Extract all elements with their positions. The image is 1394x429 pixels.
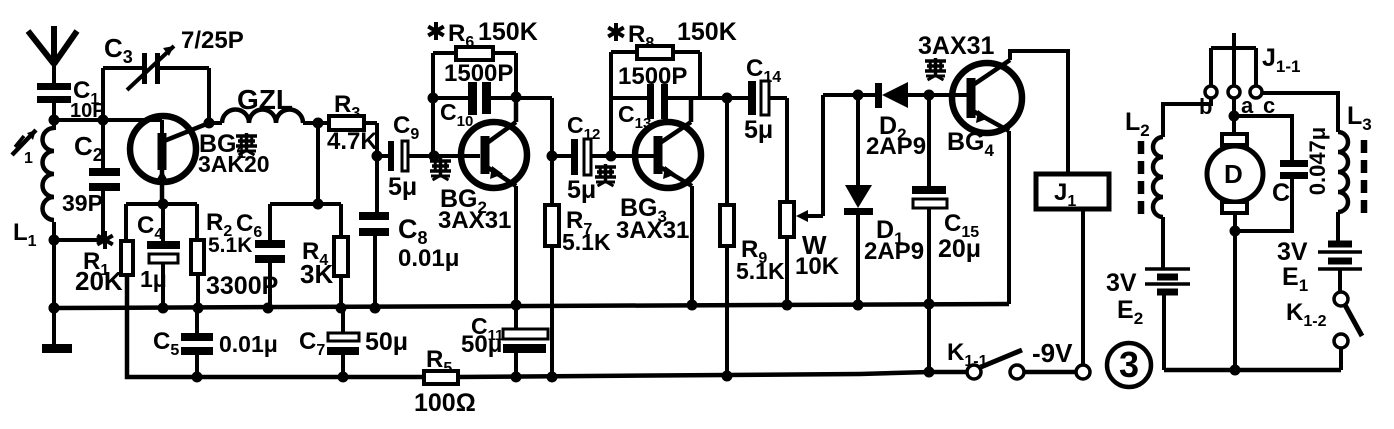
svg-text:3300P: 3300P [206,272,278,300]
svg-text:1500P: 1500P [618,63,687,90]
svg-text:5.1K: 5.1K [736,258,785,284]
svg-text:3AX31: 3AX31 [438,207,511,234]
svg-text:150K: 150K [677,18,737,46]
svg-text:3AK20: 3AK20 [198,151,270,177]
svg-text:3V: 3V [1106,269,1137,297]
svg-text:0.01μ: 0.01μ [219,331,278,357]
svg-text:150K: 150K [478,18,538,46]
svg-text:GZL: GZL [237,84,293,115]
svg-text:D: D [1224,159,1243,189]
svg-text:100Ω: 100Ω [414,389,476,417]
svg-text:5μ: 5μ [744,116,773,144]
svg-text:3: 3 [1119,344,1139,385]
svg-text:10P: 10P [70,100,106,122]
svg-text:39P: 39P [62,190,103,216]
svg-text:20μ: 20μ [938,235,981,263]
svg-text:1μ: 1μ [140,266,167,292]
svg-text:10K: 10K [795,253,840,280]
svg-text:2AP9: 2AP9 [864,238,924,265]
svg-text:1500P: 1500P [444,60,513,87]
svg-text:5μ: 5μ [388,173,417,201]
svg-text:3V: 3V [1277,238,1308,266]
svg-text:c: c [1263,93,1275,118]
svg-text:C: C [1272,179,1290,207]
svg-text:5μ: 5μ [567,176,596,204]
svg-text:3K: 3K [300,259,333,289]
svg-text:20K: 20K [75,266,123,296]
svg-text:3AX31: 3AX31 [616,217,689,244]
svg-text:3AX31: 3AX31 [918,32,995,60]
svg-text:a: a [1241,93,1254,118]
svg-text:-9V: -9V [1032,338,1073,368]
svg-text:5.1K: 5.1K [208,234,252,257]
svg-text:0.047μ: 0.047μ [1305,127,1330,196]
svg-text:1: 1 [24,150,33,167]
svg-text:50μ: 50μ [461,331,502,358]
svg-text:7/25P: 7/25P [181,27,244,54]
svg-text:b: b [1199,94,1212,119]
svg-text:5.1K: 5.1K [562,229,611,255]
svg-text:50μ: 50μ [365,328,408,356]
svg-text:0.01μ: 0.01μ [398,245,459,272]
svg-text:2AP9: 2AP9 [866,133,926,160]
svg-text:4.7K: 4.7K [327,128,378,155]
